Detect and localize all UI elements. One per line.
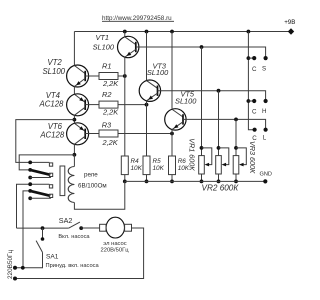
junction VR2 top [217, 146, 221, 150]
contact fixed square 3 [49, 185, 52, 188]
resistor R1 [99, 73, 118, 80]
transistor VT6 [67, 123, 89, 145]
transistor VT4 [67, 94, 89, 116]
junction phase-arm2 [21, 266, 25, 270]
svg-text:2,2K: 2,2K [102, 138, 119, 147]
svg-text:AC128: AC128 [39, 100, 65, 109]
svg-text:R3: R3 [102, 120, 112, 129]
svg-text:+9В: +9В [284, 19, 295, 26]
wire L line (VT5 base to probe) [183, 119, 266, 129]
terminal C1 [252, 56, 256, 60]
switch SA1 lever [36, 241, 42, 253]
contact fixed square 1 [49, 163, 52, 166]
transistor VT1 [118, 36, 139, 57]
junction VR3-gnd [234, 180, 238, 184]
svg-text:220В50Гц: 220В50Гц [7, 250, 14, 279]
wire VT1 collector [124, 32, 126, 37]
contact terminal 6 [28, 196, 32, 200]
svg-text:2,2K: 2,2K [102, 79, 119, 88]
contact terminal 3 [28, 176, 32, 180]
relay arm 2 [30, 191, 50, 196]
svg-text:VT2: VT2 [47, 58, 62, 67]
junction R4-gnd [123, 180, 127, 184]
junction rail-VT3 [145, 30, 149, 34]
wire S line (VT1 base to probe) [136, 47, 266, 58]
wire motor return [15, 228, 144, 279]
svg-text:10K: 10K [153, 165, 165, 172]
wire coil-top to arm1 pivot [19, 155, 74, 170]
wire VR3 top column [235, 119, 237, 155]
junction R2-VT3e [145, 103, 149, 107]
contact terminal 2 (arm1 pivot) [28, 168, 32, 172]
wire coil bottom to gnd column [74, 181, 124, 209]
wire VT5 emitter column [171, 130, 173, 156]
wire C1 stub [248, 57, 254, 59]
svg-text:R2: R2 [102, 90, 111, 99]
wire VT2 base to R1 [85, 75, 99, 77]
svg-text:SL100: SL100 [93, 43, 115, 52]
svg-text:http://www.299792458.ru: http://www.299792458.ru [102, 15, 172, 22]
resistor R5 [143, 156, 150, 175]
junction R5-gnd [145, 180, 149, 184]
junction R3-VT5e [170, 132, 174, 136]
svg-text:AC128: AC128 [39, 130, 65, 139]
switch SA1 terminal [41, 237, 45, 241]
wire phase to arm2 pivot [23, 191, 30, 268]
svg-text:C: C [252, 109, 257, 116]
svg-text:Вкл. насоса: Вкл. насоса [58, 234, 90, 240]
svg-text:GND: GND [260, 172, 272, 178]
svg-text:Принуд. вкл. насоса: Принуд. вкл. насоса [46, 263, 100, 269]
svg-text:L: L [263, 134, 267, 141]
svg-text:C: C [252, 66, 257, 73]
wire C2 stub [248, 100, 254, 102]
svg-text:SL100: SL100 [147, 68, 169, 77]
junction H-VR2 [217, 89, 221, 93]
svg-text:220В/50Гц: 220В/50Гц [101, 248, 130, 254]
contact terminal 1 [28, 161, 32, 165]
relay coil winding [68, 167, 74, 203]
terminal C2 [252, 99, 256, 103]
terminal +9V [288, 28, 294, 34]
contact fixed square 4 [49, 194, 52, 197]
svg-text:SA1: SA1 [46, 253, 59, 260]
wire R3 to VT5 emitter [118, 133, 172, 135]
wire VT6-relay [73, 144, 75, 155]
wire VR3 wiper loop [236, 148, 246, 165]
wire VR2 top column [218, 91, 220, 156]
wire VR1 bottom [201, 174, 203, 181]
potentiometer VR2 [216, 156, 222, 174]
wire SA1 top [42, 228, 44, 239]
potentiometer VR1 [199, 156, 205, 174]
svg-text:10K: 10K [131, 165, 143, 172]
switch SA2 lever [69, 222, 80, 228]
junction rail-VT5 [170, 30, 174, 34]
svg-text:SA2: SA2 [59, 216, 73, 225]
svg-text:VR1 600К: VR1 600К [187, 138, 196, 171]
junction VR3 top [234, 146, 238, 150]
junction R6-gnd [170, 180, 174, 184]
junction C1 [247, 56, 251, 60]
svg-text:6В/100Ом: 6В/100Ом [78, 183, 107, 190]
resistor R4 [121, 156, 128, 175]
wire VR2 bottom [218, 174, 220, 181]
wire VR2 wiper loop [219, 148, 229, 165]
junction rail-C [247, 30, 251, 34]
wire SA2 to motor [81, 227, 99, 229]
wire R1 to VT1 emitter [118, 75, 125, 77]
wire VT3 emitter column [146, 101, 148, 156]
relay arm 1 [30, 170, 50, 175]
terminal probe H [264, 99, 268, 103]
junction rail-VT1 [123, 30, 127, 34]
potentiometer VR3 [233, 156, 239, 174]
svg-text:S: S [262, 66, 266, 73]
junction VR2-gnd [217, 180, 221, 184]
wire VT4 node to contact1 [16, 120, 75, 163]
junction VT4-VT6 node [73, 118, 77, 122]
wire VT6 base to R3 [85, 133, 99, 135]
junction SA1 branch [41, 226, 45, 230]
VR2 wiper arrow [222, 163, 227, 167]
junction VR1-gnd [200, 180, 204, 184]
VR3 wiper arrow [239, 163, 244, 167]
transistor VT5 [165, 109, 186, 130]
wire VT4-VT6 [73, 115, 75, 123]
wire VR3 bottom [235, 174, 237, 181]
wire VT1 emitter column [124, 57, 126, 156]
wire VR1 top column [201, 47, 203, 156]
wire +9V rail [74, 31, 289, 33]
wire C common line [248, 32, 254, 130]
svg-text:SL100: SL100 [42, 67, 65, 76]
wire R6 to gnd rail [171, 175, 173, 182]
wire VT5 collector [171, 32, 173, 109]
junction L-VR3 [234, 118, 238, 122]
transistor VT3 [139, 80, 160, 101]
terminal mains 2 [13, 277, 17, 281]
resistor R3 [99, 130, 118, 137]
wire contact4 to SA line [17, 184, 50, 228]
svg-text:эл насос: эл насос [103, 241, 126, 247]
contact terminal 5 (arm2 pivot) [28, 189, 32, 193]
svg-text:реле: реле [84, 172, 98, 179]
switch SA2 terminal [79, 226, 83, 230]
svg-text:R1: R1 [102, 61, 111, 70]
wire contact6 stub [30, 197, 51, 199]
svg-text:2,2K: 2,2K [102, 107, 119, 116]
wire R4 to gnd rail [124, 175, 126, 182]
terminal probe L [264, 128, 268, 132]
wire VR1 wiper loop [202, 148, 212, 165]
wire SA line [17, 227, 69, 229]
junction C2 [247, 99, 251, 103]
wire coil top lead [73, 155, 75, 167]
wire contact3 stub [30, 177, 51, 179]
wire VT2 collector from rail [73, 32, 75, 66]
wire VT2-VT4 [73, 87, 75, 95]
pump motor M1 [106, 217, 124, 238]
resistor R2 [99, 101, 118, 108]
terminal mains 1 [13, 266, 17, 270]
junction S-VR1 [200, 45, 204, 49]
transistor VT2 [67, 65, 89, 87]
svg-text:SL100: SL100 [175, 96, 197, 105]
contact terminal 4 [28, 182, 32, 186]
svg-text:H: H [262, 108, 266, 115]
wire SA1 bottom [15, 252, 43, 267]
junction relay coil top [73, 153, 77, 157]
wire R5 to gnd rail [146, 175, 148, 182]
svg-text:VR3 600К: VR3 600К [248, 141, 257, 174]
contact fixed square 2 [49, 173, 52, 176]
wire H line (VT3 base to probe) [158, 91, 266, 101]
wire gnd rail [125, 180, 265, 182]
wire VT4 base to R2 [85, 104, 99, 106]
VR1 wiper arrow [205, 163, 210, 167]
junction R1-VT1e [123, 74, 127, 78]
svg-text:VT1: VT1 [95, 33, 109, 42]
terminal C3 [253, 128, 257, 132]
wire VT3 collector [146, 32, 148, 81]
wire R2 to VT3 emitter [118, 104, 147, 106]
resistor R6 [169, 156, 176, 175]
junction VR1 top [200, 146, 204, 150]
svg-text:VR2 600К: VR2 600К [202, 183, 240, 192]
relay core [60, 166, 65, 196]
terminal GND [263, 179, 267, 183]
terminal probe S [264, 56, 268, 60]
